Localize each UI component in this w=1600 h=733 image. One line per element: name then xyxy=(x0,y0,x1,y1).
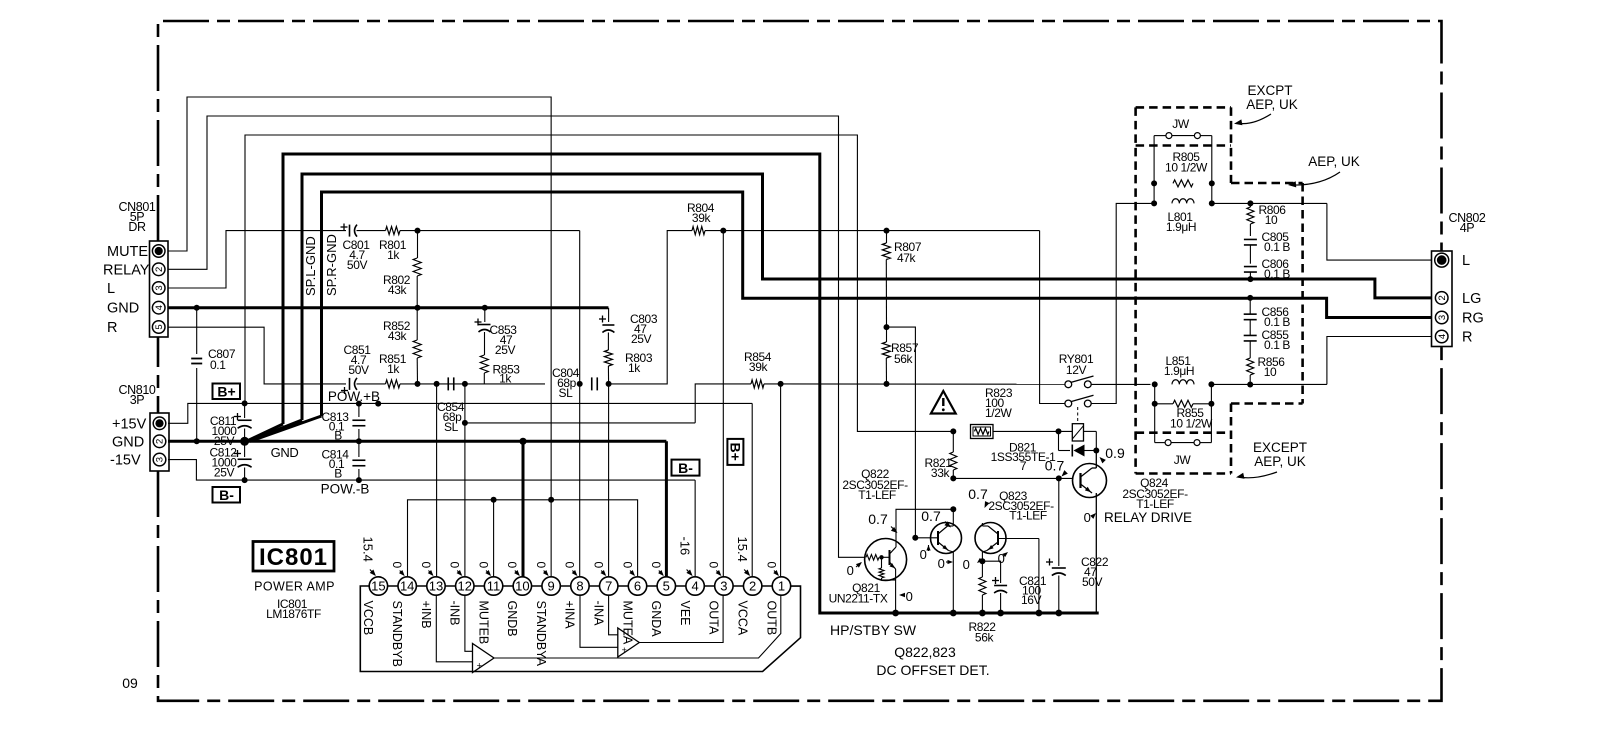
warning triangle xyxy=(931,391,956,414)
svg-text:-INB: -INB xyxy=(448,601,462,626)
capacitor C812 xyxy=(209,441,251,480)
wire L filter line xyxy=(1151,200,1432,260)
resistor R852 xyxy=(383,308,421,384)
svg-text:2: 2 xyxy=(1437,295,1448,300)
svg-text:STANDBYA: STANDBYA xyxy=(534,601,548,667)
connector CN802 xyxy=(1432,251,1453,347)
svg-text:MUTE: MUTE xyxy=(107,244,148,260)
svg-text:6: 6 xyxy=(634,579,641,594)
wire GNDB drop (thick) xyxy=(522,441,525,577)
connector CN810 xyxy=(150,413,169,471)
resistor R807 xyxy=(882,228,922,328)
svg-text:39k: 39k xyxy=(692,211,712,225)
wire VEE net xyxy=(465,423,695,577)
svg-text:1k: 1k xyxy=(387,248,400,262)
svg-text:VCCA: VCCA xyxy=(735,601,749,636)
svg-text:7: 7 xyxy=(1020,459,1027,473)
svg-text:AEP, UK: AEP, UK xyxy=(1246,97,1298,112)
relay contact lower (L channel) xyxy=(1065,395,1094,407)
svg-text:1.9μH: 1.9μH xyxy=(1164,364,1194,378)
label B+ box (top) xyxy=(213,383,241,399)
label POW.+B xyxy=(328,389,380,404)
svg-text:-INA: -INA xyxy=(592,601,606,627)
capacitor C855 xyxy=(1244,328,1291,358)
svg-text:1/2W: 1/2W xyxy=(985,406,1012,420)
label EXCEPT AEP,UK (bottom) xyxy=(1235,440,1307,480)
svg-text:T1-LEF: T1-LEF xyxy=(858,488,896,502)
svg-text:3: 3 xyxy=(154,285,165,290)
schematic border frame xyxy=(158,21,1442,701)
svg-text:GNDB: GNDB xyxy=(505,601,519,637)
svg-text:0: 0 xyxy=(476,562,490,569)
CN801 pin labels xyxy=(103,244,150,336)
svg-text:-15V: -15V xyxy=(110,453,141,469)
capacitor C853 xyxy=(475,305,518,357)
svg-text:7: 7 xyxy=(605,579,612,594)
svg-text:56k: 56k xyxy=(975,631,995,645)
svg-text:10 1/2W: 10 1/2W xyxy=(1170,417,1213,431)
svg-text:11: 11 xyxy=(487,579,501,594)
capacitor C805 xyxy=(1244,230,1291,264)
resistor R851 xyxy=(379,352,407,388)
wire SP.L-GND (thick) xyxy=(248,154,1099,613)
wire B- rail xyxy=(168,460,695,484)
svg-text:10: 10 xyxy=(515,579,529,594)
svg-text:10: 10 xyxy=(1265,213,1278,227)
svg-text:B-: B- xyxy=(219,487,234,503)
relay RY801 coil xyxy=(1072,424,1083,441)
relay RY801 label xyxy=(1059,352,1094,377)
svg-text:3: 3 xyxy=(155,457,166,462)
svg-text:0: 0 xyxy=(920,547,927,562)
capacitor C811 xyxy=(210,403,252,448)
svg-text:5: 5 xyxy=(154,324,165,329)
svg-text:+: + xyxy=(477,661,482,671)
resistor R804 xyxy=(609,201,1040,384)
transistor Q821 (digital) xyxy=(865,506,957,613)
label 0.7 at Q824 xyxy=(1045,458,1068,479)
svg-text:+INA: +INA xyxy=(563,601,577,630)
svg-text:50V: 50V xyxy=(347,258,368,272)
label B- box (bottom) xyxy=(213,487,241,503)
svg-text:0.9: 0.9 xyxy=(1105,445,1125,461)
label HP/STBY SW xyxy=(830,622,917,638)
svg-text:B+: B+ xyxy=(728,443,744,461)
wire B+ rail xyxy=(168,400,752,577)
IC801 pin voltage annotations xyxy=(361,537,781,578)
svg-text:0: 0 xyxy=(592,562,606,569)
resistor R823 (fusible) xyxy=(950,386,1013,439)
capacitor C821 xyxy=(982,561,1046,613)
svg-text:UN2211-TX: UN2211-TX xyxy=(829,592,888,606)
svg-text:LG: LG xyxy=(1462,291,1481,307)
transistor Q824 xyxy=(1073,451,1107,614)
svg-text:0: 0 xyxy=(448,562,462,569)
label SP.R-GND xyxy=(324,234,339,296)
svg-text:+: + xyxy=(622,645,627,655)
resistor R855 xyxy=(1152,384,1215,442)
op-amp channel B (internal) xyxy=(436,595,781,672)
svg-text:2: 2 xyxy=(154,267,165,272)
svg-text:Q822,823: Q822,823 xyxy=(894,644,956,660)
wire RELAY net xyxy=(168,116,865,557)
IC801 label box xyxy=(253,542,334,572)
wire -INA riser xyxy=(608,384,610,577)
svg-text:1k: 1k xyxy=(499,372,512,386)
label Q823 xyxy=(968,486,1054,523)
op-amp channel A (internal) xyxy=(580,595,723,657)
svg-text:GND: GND xyxy=(112,434,144,450)
jumper JW (top) xyxy=(1154,117,1212,203)
wire B-line segment xyxy=(357,381,546,387)
dashed boundary EXCEPT AEP,UK (bottom box) xyxy=(1136,433,1231,474)
svg-text:L: L xyxy=(107,281,115,297)
resistor R856 xyxy=(1247,355,1286,388)
svg-text:0.1: 0.1 xyxy=(210,358,226,372)
wire R filter line xyxy=(1211,337,1431,385)
svg-text:HP/STBY SW: HP/STBY SW xyxy=(830,622,917,638)
svg-text:0: 0 xyxy=(847,563,854,578)
svg-text:3: 3 xyxy=(1437,315,1448,320)
svg-text:JW: JW xyxy=(1172,117,1190,131)
dashed boundary EXCPT AEP,UK (top box) xyxy=(1136,107,1231,473)
svg-text:OUTB: OUTB xyxy=(764,601,778,636)
Q823 annotations xyxy=(963,550,1010,572)
relay contact upper (R channel) xyxy=(1065,376,1094,388)
svg-text:1: 1 xyxy=(778,579,785,594)
CN810 pin labels xyxy=(110,416,147,468)
svg-text:0: 0 xyxy=(707,562,721,569)
svg-text:25V: 25V xyxy=(631,332,652,346)
svg-text:2: 2 xyxy=(749,579,756,594)
wire OUTB riser xyxy=(780,384,782,577)
svg-text:0: 0 xyxy=(534,562,548,569)
svg-text:2: 2 xyxy=(155,439,166,444)
svg-text:15: 15 xyxy=(371,579,385,594)
svg-text:56k: 56k xyxy=(894,352,914,366)
svg-text:39k: 39k xyxy=(749,360,769,374)
svg-text:0: 0 xyxy=(620,562,634,569)
svg-text:VEE: VEE xyxy=(678,601,692,626)
svg-text:0: 0 xyxy=(419,562,433,569)
connector CN802 label xyxy=(1449,211,1486,235)
svg-text:1.9μH: 1.9μH xyxy=(1166,220,1196,234)
svg-text:12V: 12V xyxy=(1066,363,1087,377)
svg-text:L: L xyxy=(1462,253,1470,269)
dashed boundary AEP,UK (right) xyxy=(1231,183,1303,474)
svg-text:IC801: IC801 xyxy=(259,544,328,571)
svg-text:0: 0 xyxy=(938,556,945,571)
svg-text:25V: 25V xyxy=(214,466,235,480)
svg-text:DR: DR xyxy=(128,220,146,234)
svg-text:+INB: +INB xyxy=(419,601,433,629)
svg-text:13: 13 xyxy=(429,579,443,594)
capacitor C807 xyxy=(191,305,236,445)
svg-text:10 1/2W: 10 1/2W xyxy=(1165,161,1208,175)
svg-text:SL: SL xyxy=(444,420,459,434)
svg-text:RELAY DRIVE: RELAY DRIVE xyxy=(1104,510,1192,525)
svg-text:RELAY: RELAY xyxy=(103,263,150,279)
resistor R853 xyxy=(480,332,520,386)
Q822 annotations xyxy=(920,508,953,571)
svg-text:0.1 B: 0.1 B xyxy=(1264,338,1290,352)
svg-text:0: 0 xyxy=(963,557,970,572)
svg-text:0.7: 0.7 xyxy=(868,511,888,527)
label SP.L-GND xyxy=(303,236,318,296)
svg-text:15.4: 15.4 xyxy=(361,537,376,562)
wire standby-mute net xyxy=(408,497,638,577)
label EXCPT AEP,UK (top) xyxy=(1233,83,1297,127)
svg-text:0.1 B: 0.1 B xyxy=(1264,315,1290,329)
capacitor C813 xyxy=(321,404,365,443)
svg-text:SP.L-GND: SP.L-GND xyxy=(303,236,318,296)
capacitor C814 xyxy=(321,441,365,480)
svg-text:B: B xyxy=(334,467,342,481)
svg-text:B-: B- xyxy=(678,460,693,476)
wire -INB riser xyxy=(462,384,468,577)
label Q822,823 xyxy=(894,644,956,660)
wire SP relay line RG (thick) xyxy=(250,192,1432,441)
label Q821 xyxy=(829,581,888,606)
svg-text:0.7: 0.7 xyxy=(1045,458,1065,474)
svg-text:12: 12 xyxy=(458,579,472,594)
svg-text:3P: 3P xyxy=(130,393,145,407)
capacitor C804 xyxy=(552,366,612,400)
svg-text:GND: GND xyxy=(107,301,139,317)
transistor Q822 xyxy=(912,509,961,613)
label B- box (mid, rotated? no - horizontal) xyxy=(672,460,700,476)
capacitor C822 xyxy=(1046,478,1109,613)
svg-text:EXCPT: EXCPT xyxy=(1247,83,1292,98)
svg-text:8: 8 xyxy=(576,579,583,594)
label DC OFFSET DET. xyxy=(876,662,989,678)
svg-text:50V: 50V xyxy=(348,363,369,377)
wire OUTA riser xyxy=(722,231,724,577)
svg-text:T1-LEF: T1-LEF xyxy=(1136,497,1174,511)
svg-text:+15V: +15V xyxy=(112,416,147,432)
svg-text:B: B xyxy=(334,429,342,443)
wire signal GND (thick) xyxy=(168,306,608,309)
jumper JW (bottom) xyxy=(1155,440,1212,467)
capacitor C806 xyxy=(1244,257,1291,282)
label Q824 xyxy=(1122,476,1188,511)
svg-text:STANDBYB: STANDBYB xyxy=(390,601,404,667)
svg-text:0: 0 xyxy=(649,562,663,569)
wire MUTE net xyxy=(168,97,551,500)
Q821 annotations xyxy=(847,511,913,604)
svg-text:43k: 43k xyxy=(388,283,408,297)
resistor R806 xyxy=(1247,203,1286,236)
svg-text:47k: 47k xyxy=(897,251,917,265)
wire +INB riser xyxy=(436,384,438,577)
svg-text:GND: GND xyxy=(271,445,299,460)
connector CN801 label xyxy=(119,200,156,234)
resistor R802 xyxy=(383,231,421,311)
svg-text:4: 4 xyxy=(1437,334,1448,339)
resistor R805 xyxy=(1151,150,1215,187)
svg-text:DC OFFSET DET.: DC OFFSET DET. xyxy=(876,662,989,678)
svg-text:0: 0 xyxy=(764,562,778,569)
svg-text:OUTA: OUTA xyxy=(707,601,721,635)
svg-text:MUTEB: MUTEB xyxy=(476,601,490,645)
svg-text:3: 3 xyxy=(720,579,727,594)
connector CN801 xyxy=(150,241,169,337)
svg-text:-16: -16 xyxy=(677,537,692,556)
sheet number 09 xyxy=(122,675,138,691)
wire B-line to relay xyxy=(781,383,1151,386)
label 15.4 at VCCB xyxy=(0,0,1,1)
svg-text:50V: 50V xyxy=(1082,575,1103,589)
svg-text:R: R xyxy=(107,320,117,336)
svg-text:AEP, UK: AEP, UK xyxy=(1308,154,1360,169)
svg-text:GNDA: GNDA xyxy=(649,601,663,638)
svg-text:POWER AMP: POWER AMP xyxy=(254,580,335,594)
svg-text:0.7: 0.7 xyxy=(968,486,988,502)
svg-text:0: 0 xyxy=(906,589,913,604)
label B+ box (mid, rotated) xyxy=(727,439,743,465)
svg-text:4: 4 xyxy=(691,579,698,594)
svg-text:1k: 1k xyxy=(387,362,400,376)
label AEP,UK (mid) xyxy=(1288,154,1360,188)
svg-text:T1-LEF: T1-LEF xyxy=(1009,509,1047,523)
transistor Q823 xyxy=(975,523,1039,565)
svg-text:09: 09 xyxy=(122,675,138,691)
label POWER AMP xyxy=(254,580,335,594)
svg-text:10: 10 xyxy=(1264,365,1277,379)
svg-text:15.4: 15.4 xyxy=(735,537,750,562)
svg-text:14: 14 xyxy=(400,579,414,594)
capacitor C856 xyxy=(1244,295,1291,335)
resistor R854 xyxy=(695,350,783,423)
resistor R803 xyxy=(604,333,652,384)
svg-text:0.1 B: 0.1 B xyxy=(1264,240,1290,254)
svg-text:9: 9 xyxy=(548,579,555,594)
svg-text:5: 5 xyxy=(663,579,670,594)
wire Q823 base sense from L output xyxy=(1038,539,1040,614)
svg-text:VCCB: VCCB xyxy=(361,601,375,636)
wire L input net xyxy=(168,231,346,288)
resistor R821 xyxy=(924,431,956,481)
relay dashed link xyxy=(1077,407,1079,424)
svg-text:1k: 1k xyxy=(628,361,641,375)
wire A-line segment xyxy=(357,228,580,577)
svg-text:33k: 33k xyxy=(931,466,951,480)
capacitor C854 xyxy=(434,377,468,434)
svg-text:0: 0 xyxy=(1084,510,1091,525)
IC801 pins 15..1 with pin labels xyxy=(361,577,790,667)
wire relay coil feed xyxy=(993,428,1096,450)
resistor R857 xyxy=(882,324,919,387)
capacitor C851 xyxy=(341,343,371,394)
CN802 pin labels xyxy=(1462,253,1484,345)
svg-text:0: 0 xyxy=(563,562,577,569)
svg-text:POW.+B: POW.+B xyxy=(328,389,380,404)
IC801 package outline xyxy=(360,586,800,672)
svg-text:R: R xyxy=(1462,330,1472,346)
svg-text:POW.-B: POW.-B xyxy=(321,482,370,497)
wire R input net xyxy=(168,327,346,384)
svg-text:0: 0 xyxy=(390,562,404,569)
svg-text:SP.R-GND: SP.R-GND xyxy=(324,234,339,296)
wire Q824 base line xyxy=(953,475,1072,481)
connector CN810 label xyxy=(119,383,156,407)
inductor L801 xyxy=(1151,199,1215,234)
inductor L851 xyxy=(1152,354,1215,387)
wire B+ to relay supply xyxy=(245,135,953,431)
label GND xyxy=(271,445,299,460)
svg-text:AEP, UK: AEP, UK xyxy=(1254,454,1306,469)
svg-text:0.7: 0.7 xyxy=(921,508,941,524)
svg-text:JW: JW xyxy=(1174,453,1192,467)
capacitor C801 xyxy=(341,224,371,273)
svg-text:B+: B+ xyxy=(217,383,235,399)
label POW.-B xyxy=(321,482,370,497)
label RELAY DRIVE xyxy=(1084,510,1192,525)
wire SP relay line LG (thick) xyxy=(249,174,1432,441)
svg-text:LM1876TF: LM1876TF xyxy=(266,607,321,621)
capacitor C803 xyxy=(599,308,658,346)
wire L output to filter xyxy=(1040,203,1151,403)
wire main GND rail (thick) xyxy=(168,437,666,577)
label IC801 LM1876TF xyxy=(266,597,321,621)
wire DC offset sense to Q822 xyxy=(887,327,916,538)
label 0.9 annotation xyxy=(1098,445,1125,463)
resistor R822 xyxy=(968,561,996,644)
resistor R801 xyxy=(379,227,407,262)
svg-text:EXCEPT: EXCEPT xyxy=(1253,440,1307,455)
svg-text:4: 4 xyxy=(154,305,165,310)
diode D821 xyxy=(991,431,1100,473)
label Q822 xyxy=(842,467,908,502)
svg-text:25V: 25V xyxy=(495,343,516,357)
svg-text:0: 0 xyxy=(505,562,519,569)
svg-text:4P: 4P xyxy=(1460,221,1475,235)
svg-text:43k: 43k xyxy=(388,329,408,343)
svg-text:RG: RG xyxy=(1462,311,1484,327)
svg-text:0.1 B: 0.1 B xyxy=(1264,267,1290,281)
svg-text:SL: SL xyxy=(559,386,574,400)
HP/STBY bottom rail junction dots xyxy=(892,610,1062,617)
